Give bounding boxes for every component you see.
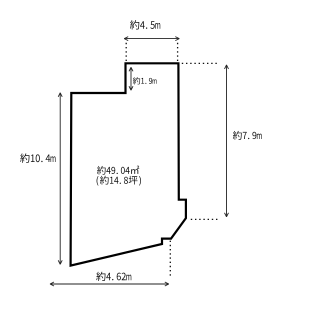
dimension arrow 4.62m (bottom width) — [50, 283, 169, 285]
extension line (dotted vertical) for 4.62m — [169, 241, 171, 277]
dimension arrow 7.9m (right side) — [226, 65, 228, 217]
label (約14.8坪) — [97, 176, 141, 186]
label 約1.9m — [133, 77, 157, 84]
extension line right (dotted) for 4.5m — [177, 43, 179, 62]
label 約4.5m — [130, 20, 160, 29]
extension line bottom-right (dotted) for 7.9m — [191, 218, 219, 220]
land parcel outline — [71, 63, 186, 265]
label 約10.4m — [20, 153, 55, 162]
label 約49.04㎡ (area) — [97, 166, 139, 175]
dimension arrow 1.9m (notch depth) — [130, 67, 132, 90]
label 約4.62m — [96, 272, 131, 281]
extension line left (dotted) for 4.5m — [125, 43, 127, 62]
dimension arrow 10.4m (left side) — [59, 93, 61, 264]
extension line top-right (dotted) for 7.9m — [182, 62, 217, 64]
dimension arrow 4.5m (top width) — [124, 38, 179, 40]
label 約7.9m — [233, 131, 262, 140]
